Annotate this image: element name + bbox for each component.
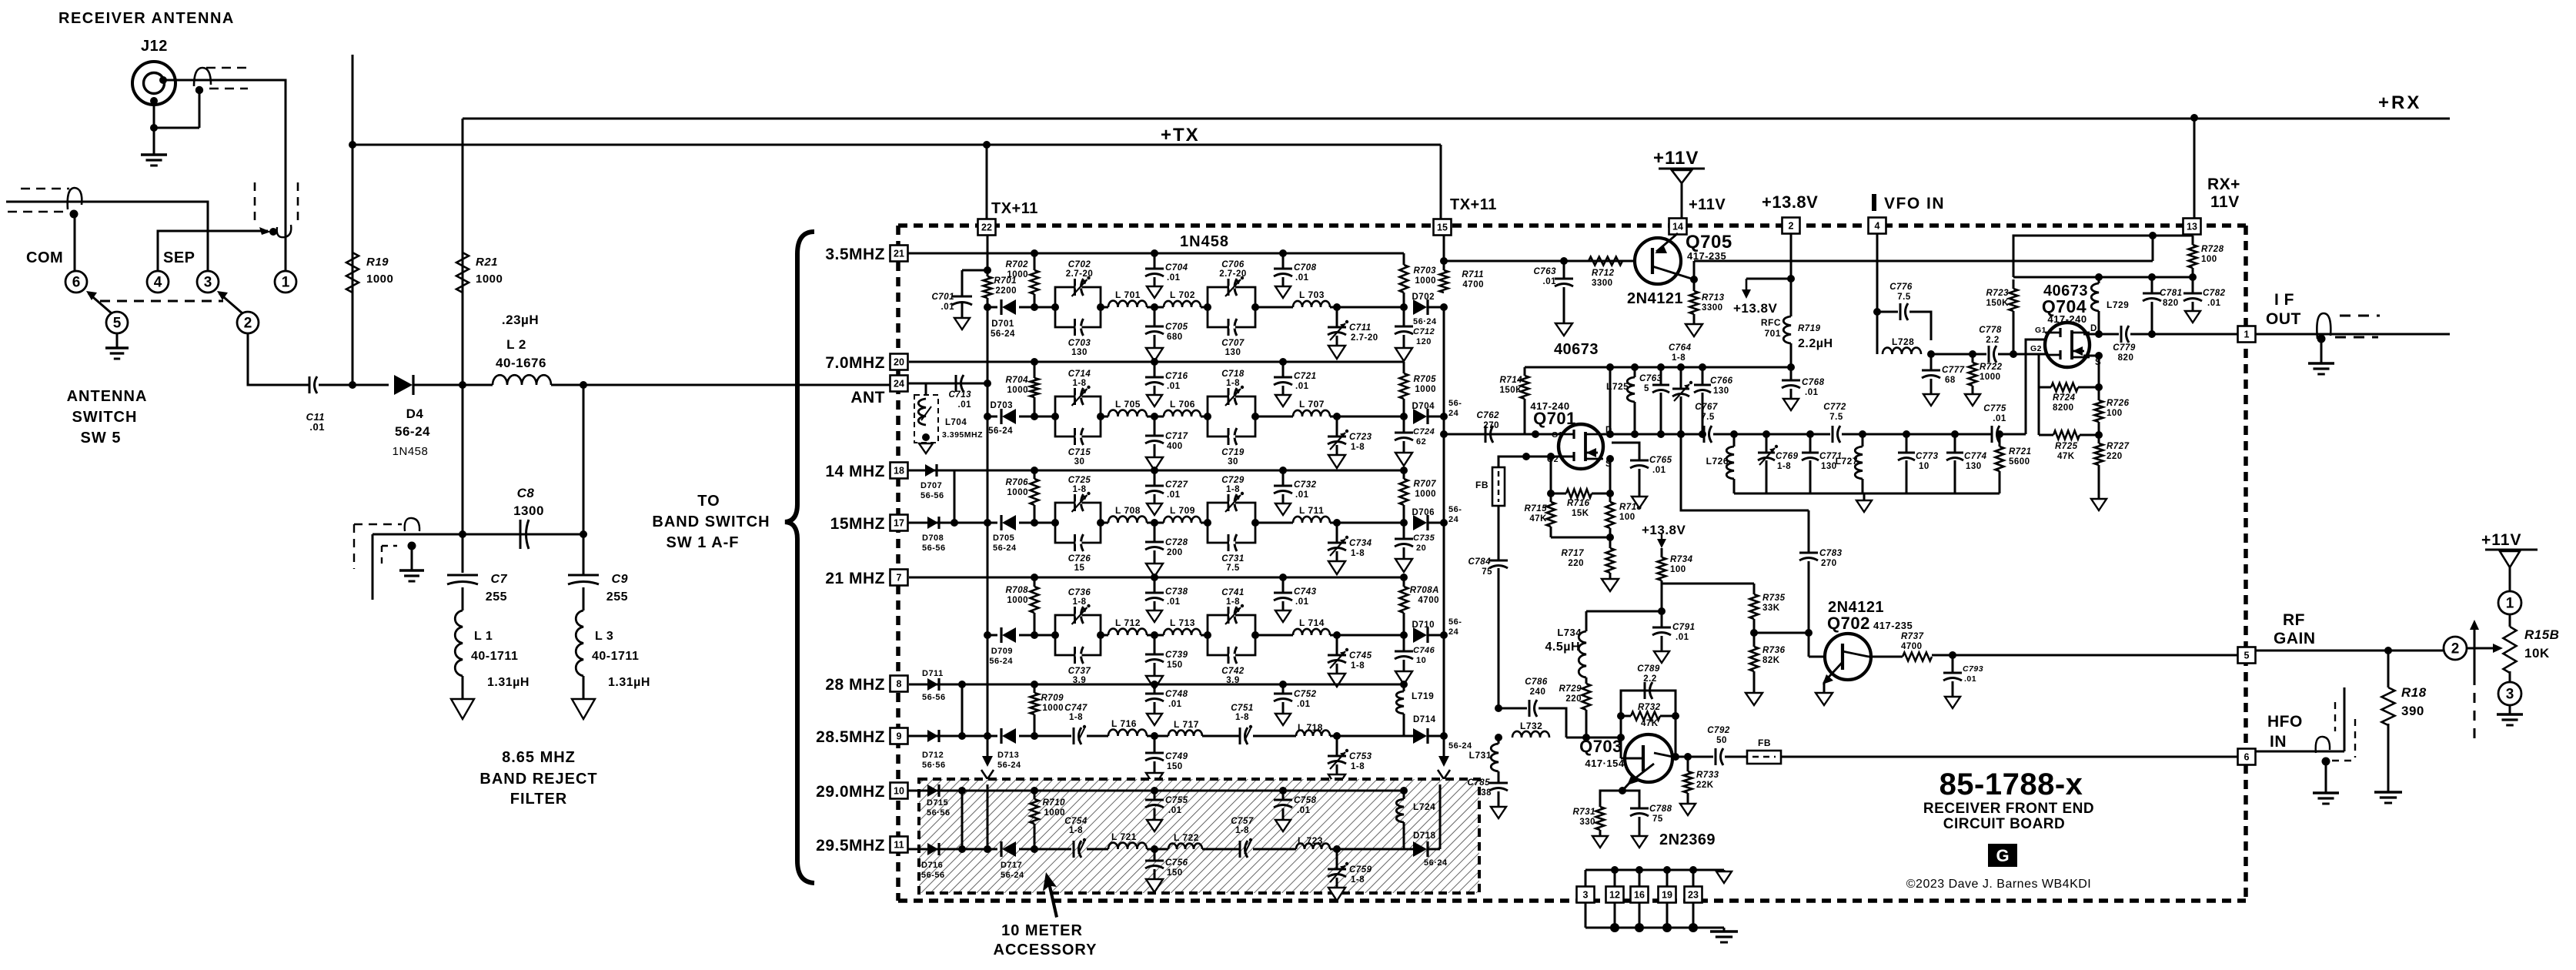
- svg-text:R19: R19: [366, 256, 389, 269]
- wire pin stub 0: [1585, 870, 1587, 887]
- svg-text:1-8: 1-8: [1351, 443, 1365, 452]
- node row3 colF: [1400, 519, 1408, 527]
- capacitor C782: [2189, 273, 2197, 281]
- svg-text:R721: R721: [2009, 447, 2032, 457]
- resistor R714: [1524, 367, 1526, 376]
- capacitor C793: [1952, 655, 1954, 673]
- inductor L727: [1855, 447, 1863, 479]
- svg-text:+13.8V: +13.8V: [1642, 523, 1686, 537]
- pin 3 (ground): [1577, 887, 1595, 903]
- wire bottom pin lower rail: [1585, 927, 1724, 929]
- svg-text:150: 150: [1167, 661, 1183, 670]
- svg-text:C772: C772: [1823, 403, 1846, 412]
- svg-text:D714: D714: [1413, 715, 1436, 724]
- svg-text:1: 1: [2244, 329, 2250, 340]
- capacitor C717: [1154, 416, 1156, 436]
- wire colA TX+11 column (box22 down): [987, 236, 989, 276]
- svg-text:C781: C781: [2160, 289, 2183, 298]
- ferrite bead FB2: [1747, 751, 1781, 764]
- svg-text:L719: L719: [1412, 691, 1434, 701]
- svg-text:2.7-20: 2.7-20: [1066, 269, 1094, 279]
- ground R15B: [2509, 705, 2511, 714]
- svg-text:1000: 1000: [476, 273, 503, 286]
- inductor L701: [1108, 301, 1147, 307]
- capacitor C771: [1809, 434, 1812, 453]
- wire +TX bus: [352, 144, 1441, 146]
- pin 8 (28 MHZ): [890, 676, 908, 692]
- switch contact 2: [237, 312, 259, 333]
- capacitor C791: [1661, 611, 1663, 627]
- capacitor C739: [1154, 635, 1156, 654]
- capacitor C716: [1151, 358, 1158, 366]
- svg-text:1000: 1000: [1044, 808, 1065, 818]
- switch wiper dashed link: [100, 300, 223, 303]
- svg-text:56-24: 56-24: [997, 761, 1021, 770]
- svg-text:130: 130: [1966, 462, 1982, 471]
- inductor L1: [462, 587, 464, 610]
- resistor R713: [1693, 279, 1696, 291]
- resistor R711: [1440, 270, 1448, 293]
- node RFC drain rail: [1787, 363, 1795, 371]
- node L728 out: [1927, 350, 1935, 358]
- svg-text:R705: R705: [1414, 375, 1437, 384]
- svg-text:C785: C785: [1468, 778, 1491, 788]
- svg-text:3300: 3300: [1702, 303, 1723, 313]
- resistor R702: [1034, 253, 1036, 270]
- inductor L717: [1168, 731, 1202, 736]
- wire C11 to D4: [319, 384, 389, 386]
- svg-text:RECEIVER FRONT END: RECEIVER FRONT END: [1923, 801, 2094, 817]
- capacitor C732: [1279, 467, 1287, 474]
- node C771: [1806, 430, 1814, 438]
- capacitor C728: [1154, 523, 1156, 542]
- brace to band switch: [785, 232, 814, 883]
- svg-text:D711: D711: [922, 669, 944, 678]
- inductor L708: [1108, 517, 1147, 523]
- wire row6 top rail: [962, 790, 1404, 792]
- diode D701: [987, 306, 997, 309]
- wire C7 column: [462, 385, 464, 573]
- ferrite bead FB: [1492, 467, 1505, 506]
- svg-text:R731: R731: [1573, 808, 1596, 817]
- capacitor C746: [1403, 635, 1405, 651]
- diode D708: [927, 517, 938, 529]
- node row2 colA: [984, 413, 991, 420]
- svg-text:22K: 22K: [1696, 781, 1714, 790]
- Q703 base wire: [1620, 738, 1622, 758]
- revision box G: [1988, 844, 2017, 867]
- svg-text:10: 10: [1919, 462, 1929, 471]
- svg-text:R724: R724: [2053, 393, 2076, 403]
- wire G2: [1526, 456, 1573, 458]
- capacitor C751: [1239, 727, 1241, 744]
- svg-text:SWITCH: SWITCH: [72, 409, 138, 426]
- svg-text:.01: .01: [309, 421, 325, 433]
- wire C786/L732 node: [1495, 704, 1502, 712]
- svg-text:417·154: 417·154: [1585, 758, 1624, 769]
- svg-text:TX+11: TX+11: [1450, 196, 1497, 213]
- capacitor C745 (trimmer): [1336, 635, 1338, 655]
- svg-text:C763: C763: [1534, 267, 1557, 276]
- capacitor C737: [1074, 647, 1076, 664]
- wire 28.5MHz band rail: [908, 735, 997, 738]
- svg-text:10K: 10K: [2524, 646, 2550, 661]
- capacitor C703: [1074, 319, 1076, 336]
- svg-text:.01: .01: [1167, 490, 1181, 500]
- svg-text:1000: 1000: [1007, 596, 1028, 605]
- svg-text:C743: C743: [1294, 587, 1317, 597]
- svg-text:10 METER: 10 METER: [1001, 922, 1083, 939]
- capacitor C781: [2148, 273, 2156, 281]
- wire colA row1-row2: [987, 307, 989, 416]
- node row5 colC: [1151, 732, 1158, 740]
- svg-text:1: 1: [282, 275, 290, 291]
- svg-text:R703: R703: [1414, 266, 1437, 276]
- wire C8 line: [373, 533, 583, 536]
- diode D710: [1413, 627, 1427, 643]
- resistor R736: [1753, 633, 1756, 647]
- capacitor C789: [1644, 682, 1646, 699]
- svg-text:L726: L726: [1706, 456, 1729, 467]
- svg-text:L727: L727: [1836, 456, 1858, 467]
- svg-text:L724: L724: [1413, 801, 1435, 812]
- resistor R726: [2095, 400, 2103, 422]
- pin 11 (29.5MHZ): [890, 837, 908, 853]
- capacitor C8: [520, 520, 522, 549]
- svg-text:C786: C786: [1525, 677, 1548, 687]
- svg-text:C749: C749: [1165, 752, 1188, 761]
- svg-text:C783: C783: [1819, 549, 1843, 558]
- wire ANT line pin24 to colA: [908, 383, 987, 385]
- wire C9 column: [583, 385, 585, 575]
- capacitor C779: [2120, 326, 2123, 343]
- pin 14 (+11V): [1669, 219, 1687, 235]
- terminal 3 R15B: [2498, 682, 2521, 705]
- wire C783 to base node: [1754, 632, 1809, 634]
- svg-text:+11V: +11V: [2481, 531, 2521, 549]
- capacitor C726: [1074, 534, 1076, 551]
- svg-text:+11V: +11V: [1689, 196, 1726, 213]
- svg-text:R726: R726: [2107, 399, 2130, 408]
- capacitor C785: [1498, 771, 1500, 783]
- svg-text:L 706: L 706: [1170, 399, 1195, 410]
- svg-text:C746: C746: [1413, 646, 1435, 655]
- svg-text:R704: R704: [1006, 376, 1029, 385]
- svg-text:R15B: R15B: [2524, 627, 2559, 642]
- capacitor C788: [1622, 791, 1639, 808]
- svg-text:C705: C705: [1165, 323, 1188, 332]
- capacitor C741: [1228, 607, 1230, 624]
- svg-text:C752: C752: [1294, 690, 1317, 699]
- capacitor C713: [955, 375, 957, 392]
- svg-text:D717: D717: [1001, 861, 1022, 870]
- wire 21MHz band rail: [909, 577, 1404, 579]
- svg-text:L729: L729: [2107, 299, 2129, 310]
- pin 24 (ANT): [890, 376, 908, 392]
- capacitor C729: [1228, 494, 1230, 511]
- resistor R21: [456, 253, 469, 293]
- capacitor C784: [1498, 506, 1500, 560]
- node row4 colG: [1440, 631, 1448, 639]
- svg-text:©2023 Dave J. Barnes WB4KDI: ©2023 Dave J. Barnes WB4KDI: [1906, 878, 2092, 891]
- svg-text:100: 100: [1619, 513, 1635, 522]
- inductor L721: [1108, 843, 1147, 849]
- diode D718: [1404, 848, 1415, 851]
- wire filter rail row2: [1101, 416, 1108, 418]
- node ANT colA: [984, 380, 991, 387]
- wire G2 to FB column: [1498, 457, 1526, 467]
- Q702 collector: [1843, 651, 1869, 657]
- inductor L707: [1293, 410, 1330, 416]
- resistor R729: [1585, 677, 1588, 684]
- svg-text:C767: C767: [1695, 403, 1718, 412]
- node C774: [1951, 430, 1959, 438]
- svg-text:62: 62: [1416, 437, 1426, 447]
- svg-text:56·24: 56·24: [1413, 317, 1437, 326]
- node L726: [1730, 430, 1738, 438]
- coax IF OUT: [2317, 313, 2330, 339]
- svg-text:D709: D709: [991, 647, 1013, 656]
- node row1 colG: [1440, 303, 1448, 311]
- svg-text:3: 3: [204, 275, 212, 291]
- node row6 colE: [1333, 845, 1341, 853]
- resistor R703: [1403, 253, 1405, 265]
- svg-text:1-8: 1-8: [1351, 661, 1365, 671]
- svg-text:SW 5: SW 5: [81, 430, 122, 447]
- svg-text:.01: .01: [1295, 490, 1309, 500]
- resistor R732: [1621, 715, 1631, 717]
- svg-text:L 714: L 714: [1299, 617, 1325, 628]
- wire C778 to Q704 gates: [1998, 353, 2046, 356]
- svg-text:417-240: 417-240: [2047, 313, 2087, 325]
- capacitor C763b 5: [1660, 367, 1662, 385]
- wire D4 to L2: [414, 384, 493, 386]
- svg-text:50: 50: [1716, 736, 1727, 745]
- capacitor C723 (trimmer): [1336, 416, 1338, 436]
- capacitor C757: [1239, 841, 1241, 858]
- pin 2 (+13.8V): [1782, 218, 1800, 234]
- resistor R733: [1687, 757, 1689, 771]
- svg-text:15: 15: [1437, 222, 1448, 233]
- capacitor C772: [1832, 426, 1834, 443]
- svg-text:8.65 MHZ: 8.65 MHZ: [502, 749, 576, 766]
- capacitor C755: [1151, 787, 1158, 794]
- resistor R707: [1403, 470, 1405, 479]
- svg-text:1-8: 1-8: [1235, 713, 1249, 722]
- svg-text:15: 15: [1074, 564, 1085, 573]
- wire R737 to pin5 (RF GAIN): [1932, 654, 2237, 657]
- ground R18: [2374, 791, 2402, 793]
- svg-text:C715: C715: [1068, 448, 1091, 457]
- resistor R721: [1999, 434, 2001, 447]
- coax node1 dashes: [254, 182, 256, 223]
- svg-text:D703: D703: [991, 401, 1014, 410]
- svg-text:RECEIVER ANTENNA: RECEIVER ANTENNA: [58, 10, 235, 27]
- capacitor C731: [1228, 534, 1230, 551]
- node TX junction: [349, 141, 356, 149]
- svg-text:.01: .01: [1295, 597, 1309, 607]
- node R18: [2384, 647, 2392, 654]
- svg-text:ACCESSORY: ACCESSORY: [994, 942, 1098, 958]
- svg-text:38: 38: [1481, 788, 1492, 798]
- svg-text:OUT: OUT: [2266, 310, 2301, 328]
- svg-text:C729: C729: [1221, 476, 1245, 485]
- pin 22 (TX+11): [978, 219, 996, 236]
- svg-text:D718: D718: [1413, 831, 1436, 841]
- svg-text:C763: C763: [1639, 374, 1662, 383]
- node row3 colE: [1333, 519, 1341, 527]
- svg-text:56-: 56-: [1448, 399, 1462, 408]
- svg-text:150: 150: [1167, 868, 1183, 878]
- svg-text:56-: 56-: [1448, 617, 1462, 627]
- svg-text:6: 6: [72, 275, 81, 291]
- svg-text:3300: 3300: [1592, 279, 1613, 288]
- capacitor C725: [1074, 494, 1076, 511]
- svg-text:C779: C779: [2113, 343, 2136, 353]
- inductor L702: [1164, 301, 1201, 307]
- wire COM braid to contact 6: [74, 214, 76, 270]
- svg-text:C719: C719: [1221, 448, 1245, 457]
- wire drain rail: [1525, 366, 1791, 369]
- diode D703: [987, 416, 997, 418]
- svg-text:18: 18: [894, 466, 904, 477]
- svg-text:.01: .01: [1543, 277, 1557, 286]
- svg-text:9: 9: [897, 731, 902, 742]
- capacitor C715: [1074, 428, 1076, 445]
- pin 10 (29.0MHZ): [890, 783, 908, 799]
- svg-text:R719: R719: [1798, 324, 1821, 333]
- wire R735 rail: [1662, 583, 1754, 585]
- resistor R709: [1034, 684, 1036, 693]
- capacitor C742: [1228, 647, 1230, 664]
- capacitor C735: [1403, 523, 1405, 539]
- svg-text:R710: R710: [1043, 798, 1066, 808]
- node row2 colE: [1333, 413, 1341, 420]
- pin4 column: [1876, 234, 1879, 312]
- tank C736/C737: [1055, 615, 1101, 655]
- inductor L713: [1164, 629, 1201, 635]
- svg-text:21 MHZ: 21 MHZ: [825, 570, 885, 587]
- svg-text:C765: C765: [1649, 456, 1672, 465]
- wire pin lower stub 2: [1639, 902, 1641, 928]
- resistor R718: [1609, 493, 1612, 502]
- svg-text:L734: L734: [1557, 627, 1582, 638]
- svg-text:+TX: +TX: [1161, 125, 1200, 145]
- resistor R722: [1972, 354, 1974, 363]
- svg-text:I F: I F: [2274, 291, 2294, 309]
- node row2 colC: [1151, 413, 1158, 420]
- node R723 bottom: [2010, 350, 2017, 358]
- node row2 colG: [1440, 413, 1448, 420]
- svg-text:G1: G1: [1552, 430, 1563, 440]
- svg-text:C727: C727: [1165, 480, 1188, 490]
- coax COM shield loop: [68, 188, 82, 209]
- svg-text:270: 270: [1821, 559, 1837, 568]
- svg-text:R716: R716: [1567, 499, 1590, 508]
- svg-text:G: G: [1996, 846, 2009, 865]
- svg-text:1-8: 1-8: [1226, 485, 1240, 494]
- svg-text:150: 150: [1167, 762, 1183, 771]
- svg-text:47K: 47K: [2057, 452, 2075, 461]
- pin2 column: [1790, 234, 1793, 279]
- Q702 emitter: [1824, 662, 1843, 682]
- svg-text:417-235: 417-235: [1873, 620, 1913, 631]
- resistor R723: [2013, 311, 2015, 354]
- svg-text:C739: C739: [1165, 651, 1188, 660]
- svg-text:D4: D4: [406, 406, 424, 421]
- inductor L722: [1168, 844, 1202, 849]
- svg-text:+RX: +RX: [2378, 92, 2421, 113]
- inductor L734: [1585, 611, 1588, 631]
- svg-text:.01: .01: [1168, 700, 1182, 709]
- svg-text:1000: 1000: [1007, 270, 1028, 279]
- svg-text:3.395MHZ: 3.395MHZ: [942, 430, 983, 440]
- svg-text:5: 5: [1644, 384, 1649, 393]
- coax stub at J12: [194, 68, 211, 86]
- capacitor C753 (trimmer): [1336, 736, 1338, 756]
- wire IF OUT to coax: [2256, 333, 2450, 336]
- svg-text:3.5MHZ: 3.5MHZ: [825, 246, 885, 263]
- svg-text:R717: R717: [1562, 549, 1585, 558]
- svg-text:1-8: 1-8: [1072, 597, 1086, 607]
- wire R715 bottom to source col: [1551, 537, 1610, 539]
- svg-text:C704: C704: [1165, 263, 1188, 273]
- diode D714: [1404, 735, 1415, 738]
- svg-text:C768: C768: [1802, 378, 1825, 387]
- svg-text:D708: D708: [922, 533, 944, 543]
- inductor L703: [1293, 301, 1330, 307]
- svg-text:220: 220: [2107, 452, 2123, 461]
- svg-text:68: 68: [1945, 376, 1956, 385]
- tank C725/C726: [1055, 503, 1101, 543]
- svg-text:L 3: L 3: [595, 630, 613, 643]
- svg-text:C741: C741: [1221, 588, 1245, 597]
- svg-text:20: 20: [894, 357, 904, 368]
- pin 1 (IF OUT): [2238, 326, 2256, 343]
- resistor R725: [2038, 387, 2040, 435]
- resistor R735: [1753, 584, 1756, 594]
- svg-text:+13.8V: +13.8V: [1733, 301, 1778, 316]
- resistor R734: [1661, 548, 1663, 557]
- svg-text:1000: 1000: [1007, 386, 1028, 395]
- pin 12 (ground): [1606, 887, 1624, 903]
- svg-text:1-8: 1-8: [1226, 597, 1240, 607]
- wire drain bias rail: [2013, 276, 2193, 279]
- capacitor C747: [1073, 727, 1075, 744]
- svg-text:10: 10: [894, 786, 904, 797]
- capacitor C721: [1279, 358, 1287, 366]
- capacitor C712: [1403, 307, 1405, 326]
- svg-text:R728: R728: [2201, 245, 2224, 254]
- svg-text:2N2369: 2N2369: [1659, 831, 1716, 848]
- arrow 10 meter accessory: [1043, 872, 1058, 918]
- wire Q705 collector rail to corner 2797: [1694, 260, 2153, 263]
- svg-text:C775: C775: [1983, 404, 2006, 413]
- svg-text:C708: C708: [1294, 263, 1317, 273]
- svg-text:.01: .01: [1295, 273, 1309, 283]
- svg-text:100: 100: [2201, 255, 2217, 264]
- svg-text:56-24: 56-24: [395, 424, 430, 439]
- transistor Q704 (dual-gate FET): [2045, 323, 2090, 367]
- capacitor C758: [1279, 787, 1287, 794]
- svg-text:C717: C717: [1165, 432, 1188, 441]
- node row1 colE: [1333, 303, 1341, 311]
- svg-text:47K: 47K: [1641, 719, 1659, 728]
- wire filter rail row5: [1087, 735, 1108, 738]
- switch contact 3: [197, 271, 219, 293]
- svg-text:23: 23: [1688, 890, 1699, 901]
- svg-text:30: 30: [1074, 457, 1085, 467]
